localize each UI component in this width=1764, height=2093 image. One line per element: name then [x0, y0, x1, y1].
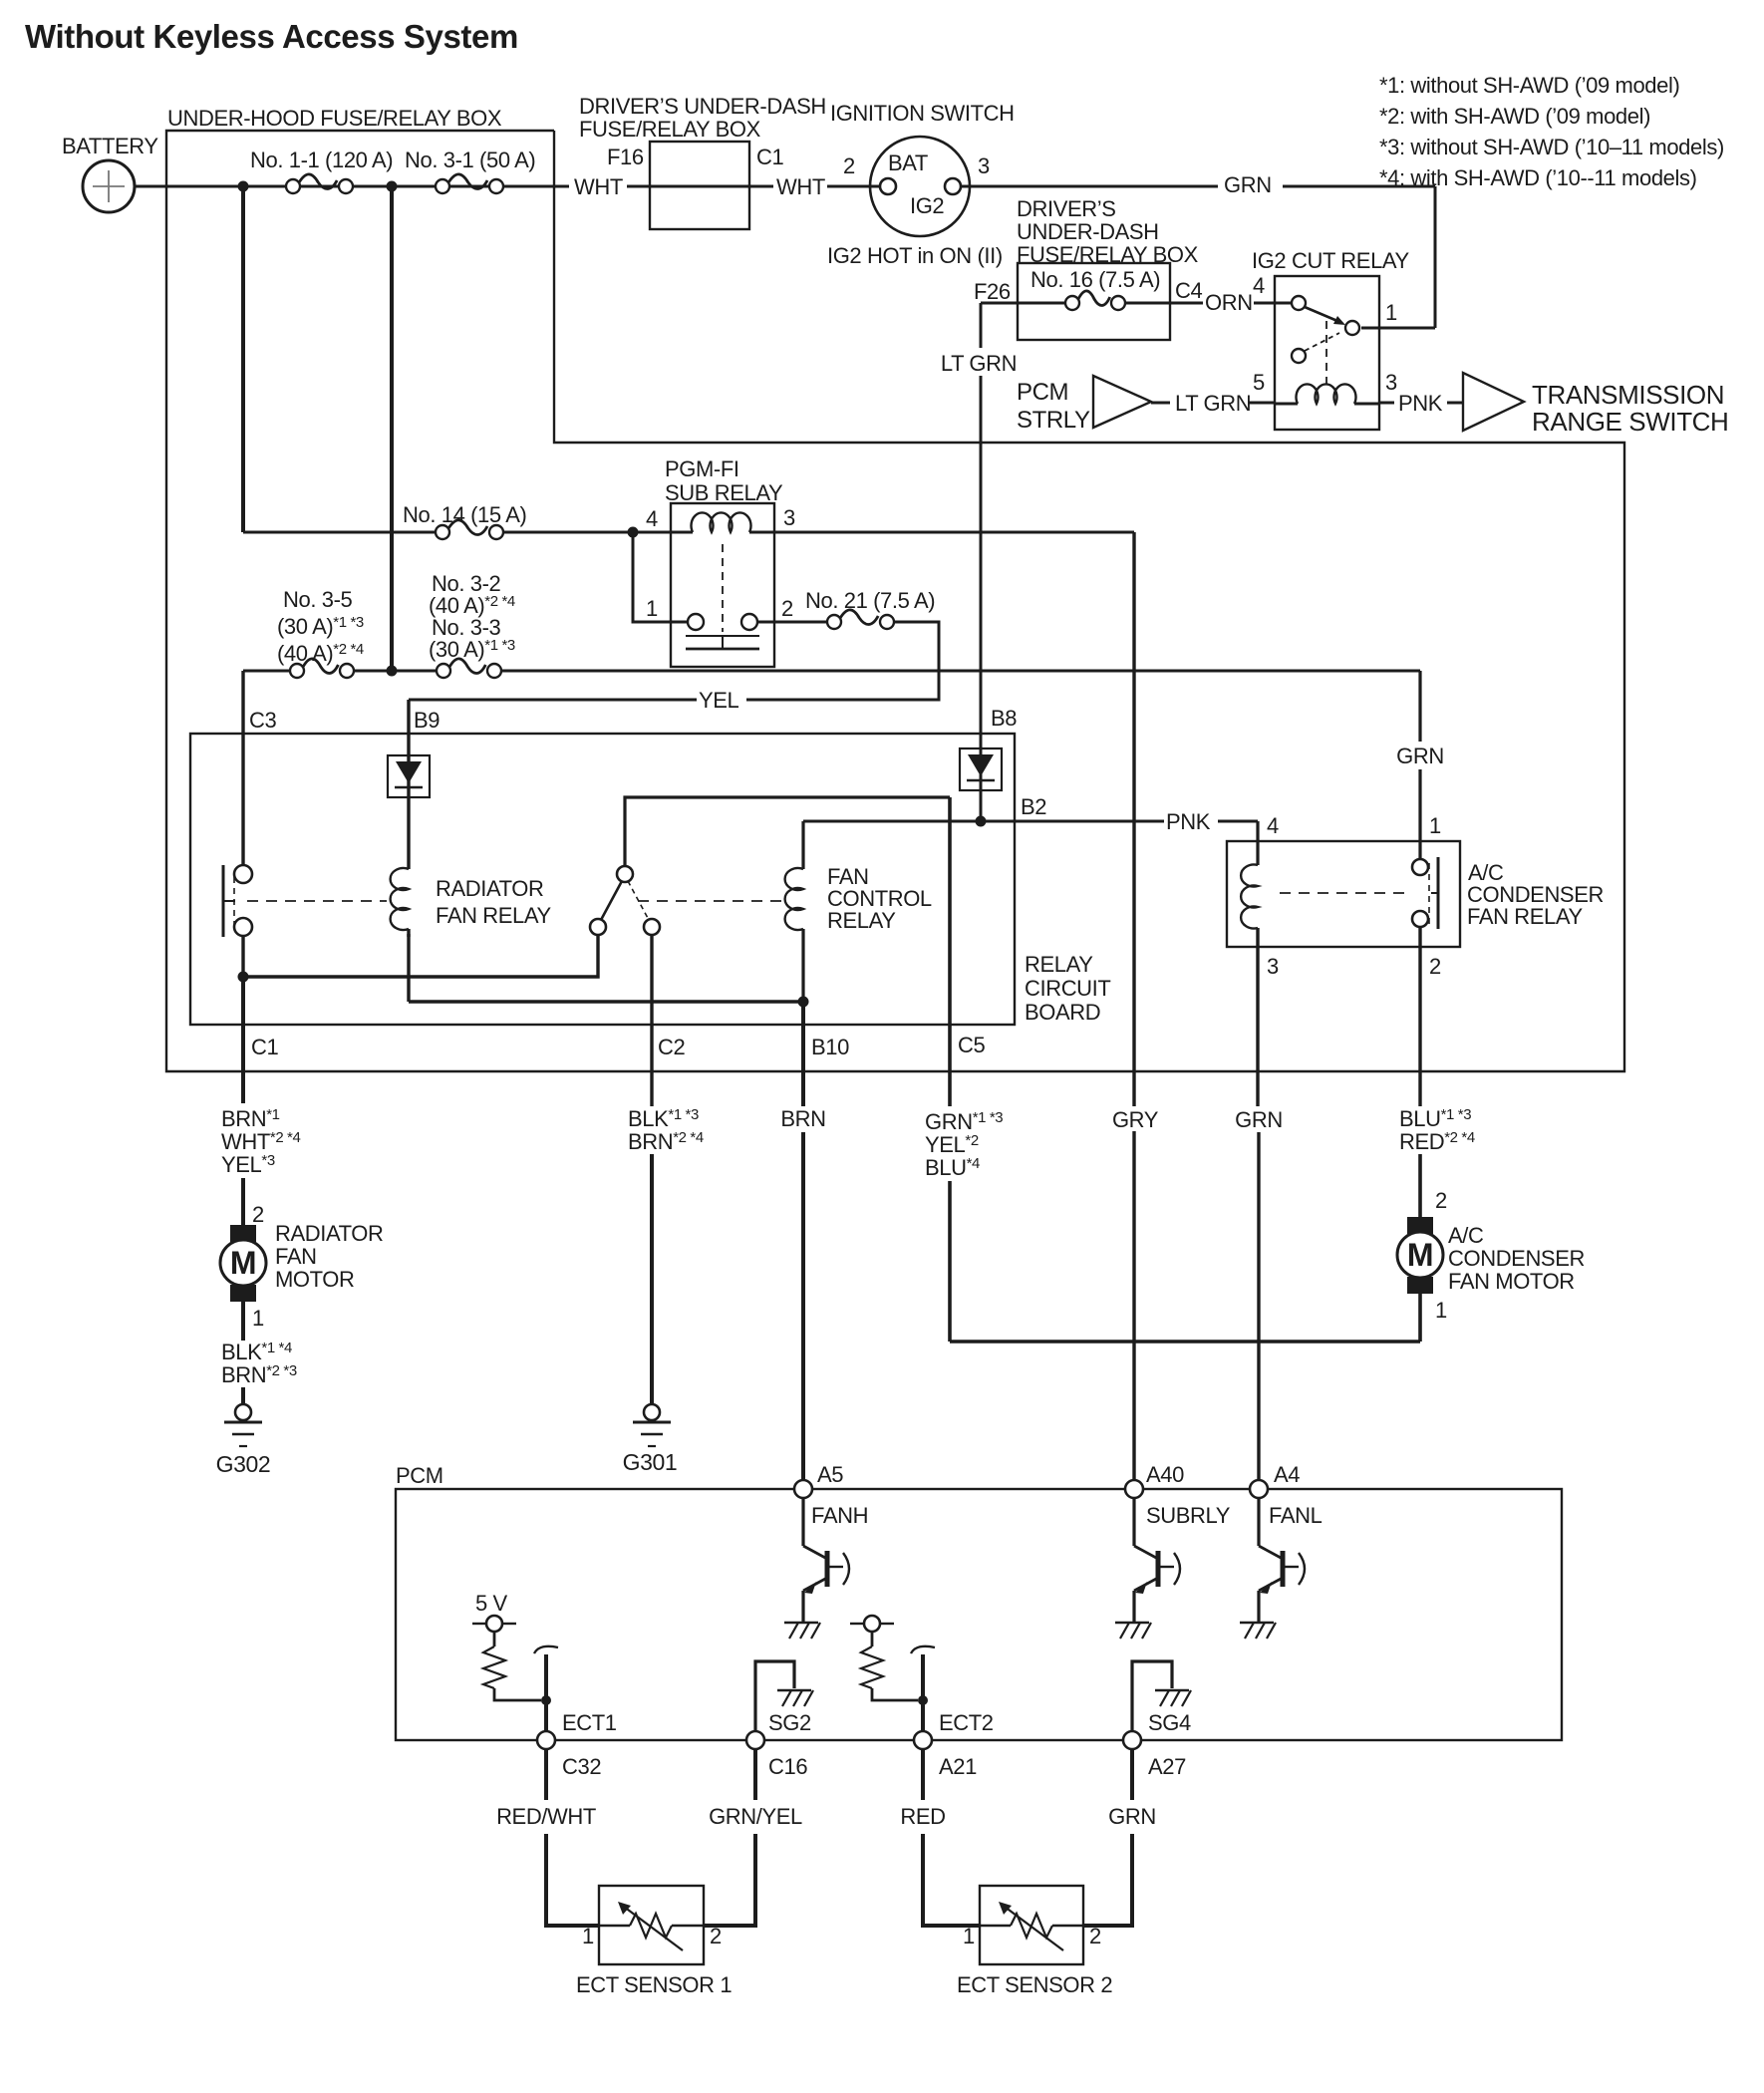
- svg-text:B9: B9: [414, 708, 440, 733]
- svg-text:LT GRN: LT GRN: [1175, 391, 1251, 416]
- radiator fan relay contact a: [234, 865, 252, 883]
- junction node sub relay pin1/pin4: [628, 527, 639, 538]
- PCM pin A40: [1125, 1480, 1143, 1498]
- svg-text:FANH: FANH: [811, 1503, 868, 1528]
- wire C32 to ECT sensor 1 (RED/WHT): [544, 1749, 548, 1800]
- svg-text:RED/WHT: RED/WHT: [496, 1804, 596, 1829]
- svg-text:C1: C1: [251, 1035, 278, 1059]
- svg-text:5 V: 5 V: [475, 1591, 508, 1616]
- sub relay contact 2: [741, 614, 757, 630]
- svg-text:WHT: WHT: [574, 174, 623, 199]
- svg-text:C16: C16: [768, 1754, 807, 1779]
- svg-text:No. 1-1 (120 A): No. 1-1 (120 A): [250, 148, 393, 172]
- svg-text:M: M: [1407, 1237, 1433, 1273]
- svg-text:IGNITION SWITCH: IGNITION SWITCH: [830, 101, 1015, 126]
- svg-text:A4: A4: [1274, 1462, 1300, 1487]
- driver's under-dash fuse/relay box F16: [650, 142, 749, 229]
- fuse No. 21 (7.5 A): [827, 615, 841, 629]
- svg-text:F16: F16: [607, 145, 644, 169]
- ECT sensor 2: [980, 1886, 1083, 1964]
- junction node B10: [798, 997, 809, 1008]
- svg-text:FAN: FAN: [275, 1244, 317, 1269]
- svg-text:PCM: PCM: [396, 1463, 443, 1488]
- svg-text:CONDENSER: CONDENSER: [1448, 1246, 1585, 1271]
- bus wire C1: [243, 935, 598, 977]
- SG2 internal ground: [755, 1661, 794, 1731]
- junction node No.1-1/No.3-1: [387, 181, 398, 192]
- A/C condenser fan motor: [1407, 1217, 1433, 1234]
- wire ECT2: [911, 1646, 935, 1653]
- wire B10 to PCM A5 (BRN): [801, 1002, 805, 1106]
- fan control relay switch common: [617, 866, 633, 882]
- svg-text:ECT1: ECT1: [562, 1710, 617, 1735]
- svg-text:GRY: GRY: [1112, 1107, 1159, 1132]
- fuse No. 16 (7.5 A): [1018, 302, 1064, 305]
- IG2 cut relay armature: [1305, 307, 1337, 321]
- junction node battery/No.1-1: [238, 181, 249, 192]
- wire C3 column: [241, 671, 244, 865]
- radiator fan relay contact plate: [222, 865, 225, 937]
- svg-text:A5: A5: [817, 1462, 843, 1487]
- wire sub relay pin 3 to GRY column: [774, 531, 1134, 534]
- svg-text:FANL: FANL: [1269, 1503, 1323, 1528]
- svg-text:B10: B10: [811, 1035, 849, 1059]
- fuse No. 1-1 (120 A): [286, 179, 300, 193]
- svg-text:G302: G302: [216, 1451, 271, 1477]
- A/C relay contact 2: [1412, 911, 1428, 927]
- ground G302: [235, 1404, 251, 1420]
- svg-text:SG4: SG4: [1148, 1710, 1191, 1735]
- svg-text:1: 1: [963, 1924, 975, 1948]
- svg-text:SUBRLY: SUBRLY: [1146, 1503, 1231, 1528]
- bus wire coil bottoms to B10: [409, 1000, 803, 1003]
- junction node C1: [238, 972, 249, 983]
- svg-text:TRANSMISSION: TRANSMISSION: [1532, 380, 1724, 410]
- junction node No.3-5 row: [387, 666, 398, 677]
- svg-text:3: 3: [783, 505, 795, 530]
- svg-text:G301: G301: [623, 1449, 678, 1475]
- svg-text:FAN RELAY: FAN RELAY: [1467, 904, 1584, 929]
- svg-text:IG2 HOT in ON (II): IG2 HOT in ON (II): [827, 243, 1003, 268]
- svg-text:ORN: ORN: [1205, 290, 1253, 315]
- fuse No. 3-1 (50 A): [436, 179, 449, 193]
- diode B9: [388, 755, 430, 797]
- IG2 cut relay contact 1: [1345, 321, 1359, 335]
- svg-text:UNDER-HOOD FUSE/RELAY BOX: UNDER-HOOD FUSE/RELAY BOX: [167, 106, 502, 131]
- svg-text:1: 1: [646, 596, 658, 621]
- svg-text:GRN: GRN: [1108, 1804, 1156, 1829]
- wire battery junction down to No.14 fuse row: [241, 186, 245, 532]
- svg-text:PNK: PNK: [1398, 391, 1443, 416]
- A/C relay contact 1: [1412, 859, 1428, 875]
- svg-text:UNDER-DASH: UNDER-DASH: [1017, 219, 1159, 244]
- wire battery to F16 box (WHT): [135, 185, 569, 188]
- svg-text:YEL: YEL: [699, 688, 739, 713]
- svg-text:RADIATOR: RADIATOR: [275, 1221, 383, 1246]
- svg-text:2: 2: [1429, 954, 1441, 979]
- svg-text:FUSE/RELAY BOX: FUSE/RELAY BOX: [1017, 242, 1199, 267]
- svg-text:ECT2: ECT2: [939, 1710, 994, 1735]
- svg-text:GRN: GRN: [1235, 1107, 1283, 1132]
- svg-text:C2: C2: [658, 1035, 685, 1059]
- wire sub relay pin 2 to fuse No.21: [757, 621, 827, 624]
- svg-text:CIRCUIT: CIRCUIT: [1025, 976, 1110, 1001]
- PCM pin A4: [1250, 1480, 1268, 1498]
- wire C2 column: [650, 935, 653, 1106]
- wire ORN: [1170, 302, 1203, 305]
- sub relay contact 1: [688, 614, 704, 630]
- wire GRN ignition to IG2 cut relay pin 1: [961, 185, 1218, 188]
- svg-text:RANGE SWITCH: RANGE SWITCH: [1532, 407, 1728, 437]
- PCM pin C32 (ECT1): [537, 1731, 555, 1749]
- svg-text:C4: C4: [1175, 278, 1202, 303]
- svg-text:C3: C3: [249, 708, 276, 733]
- wire YEL to diode B9: [409, 699, 697, 702]
- fan control relay switch contact high: [644, 919, 660, 935]
- wire ECT1: [534, 1646, 558, 1653]
- radiator fan motor: [230, 1225, 256, 1242]
- svg-text:1: 1: [1385, 300, 1397, 325]
- wire A/C relay pin 2 down: [1418, 927, 1421, 1106]
- svg-text:3: 3: [978, 153, 990, 178]
- svg-text:BAT: BAT: [888, 150, 928, 175]
- driver's under-dash fuse/relay box No.16: [1018, 263, 1170, 340]
- PGM-FI sub relay box: [671, 503, 774, 667]
- PCM pin A27 (SG4): [1123, 1731, 1141, 1749]
- svg-text:4: 4: [646, 506, 658, 531]
- radiator fan relay contact b: [234, 918, 252, 936]
- svg-text:No. 14 (15 A): No. 14 (15 A): [403, 502, 526, 527]
- svg-text:LT GRN: LT GRN: [941, 351, 1017, 376]
- radiator fan relay coil: [407, 865, 410, 869]
- PCM box: [396, 1489, 1562, 1740]
- svg-text:BOARD: BOARD: [1025, 1000, 1100, 1025]
- svg-text:A40: A40: [1146, 1462, 1184, 1487]
- wire C1 to radiator fan motor: [241, 977, 245, 1103]
- junction node B2: [976, 816, 987, 827]
- svg-text:PGM-FI: PGM-FI: [665, 456, 739, 481]
- svg-text:*3: without SH-AWD (’10–11 mod: *3: without SH-AWD (’10–11 models): [1379, 135, 1724, 159]
- ground G301: [644, 1404, 660, 1420]
- PCM STRLY connector triangle: [1093, 376, 1151, 428]
- SG4 internal ground: [1132, 1661, 1172, 1731]
- svg-text:*2: with SH-AWD (’09 model): *2: with SH-AWD (’09 model): [1379, 104, 1650, 129]
- A/C relay contact plate: [1437, 857, 1440, 929]
- A/C condenser fan relay box: [1227, 841, 1460, 947]
- diode B8: [960, 748, 1002, 790]
- svg-text:*1: without SH-AWD (’09 model): *1: without SH-AWD (’09 model): [1379, 73, 1679, 98]
- svg-text:2: 2: [781, 596, 793, 621]
- svg-text:No. 16 (7.5 A): No. 16 (7.5 A): [1030, 267, 1160, 292]
- svg-text:BRN: BRN: [780, 1106, 825, 1131]
- wire fuse No.21 to YEL: [746, 622, 939, 700]
- svg-text:DRIVER’S: DRIVER’S: [1017, 196, 1116, 221]
- svg-text:2: 2: [1089, 1924, 1101, 1948]
- svg-text:3: 3: [1385, 370, 1397, 395]
- svg-text:PCM: PCM: [1017, 379, 1068, 406]
- svg-text:5: 5: [1253, 370, 1265, 395]
- svg-text:ECT SENSOR 2: ECT SENSOR 2: [957, 1972, 1112, 1997]
- svg-text:4: 4: [1267, 813, 1279, 838]
- svg-text:No. 3-1 (50 A): No. 3-1 (50 A): [405, 148, 535, 172]
- svg-text:SG2: SG2: [768, 1710, 811, 1735]
- battery: [83, 160, 135, 212]
- PCM pin A21 (ECT2): [914, 1731, 932, 1749]
- sub relay pin1 wire: [633, 532, 688, 622]
- wire radiator relay coil to bus: [407, 934, 410, 1002]
- A/C relay coil: [1256, 821, 1259, 865]
- svg-text:B8: B8: [991, 706, 1017, 731]
- PCM pin A5: [794, 1480, 812, 1498]
- svg-text:1: 1: [252, 1306, 264, 1331]
- svg-text:B2: B2: [1021, 794, 1046, 819]
- svg-text:STRLY: STRLY: [1017, 407, 1090, 434]
- svg-text:FUSE/RELAY BOX: FUSE/RELAY BOX: [579, 117, 761, 142]
- fuse No. 14 (15 A): [436, 525, 449, 539]
- svg-text:ECT SENSOR 1: ECT SENSOR 1: [576, 1972, 732, 1997]
- IG2 cut relay link dashed: [1325, 321, 1327, 389]
- svg-text:Without Keyless Access System: Without Keyless Access System: [25, 18, 518, 55]
- wire B2 row (PNK): [803, 820, 977, 823]
- junction node ECT2 pullup: [918, 1695, 928, 1705]
- svg-text:2: 2: [1435, 1188, 1447, 1213]
- svg-text:A27: A27: [1148, 1754, 1186, 1779]
- ignition switch: [870, 137, 970, 236]
- svg-text:No. 21 (7.5 A): No. 21 (7.5 A): [805, 588, 935, 613]
- wire switch common up and over to C5: [625, 797, 950, 866]
- svg-text:RELAY: RELAY: [1025, 952, 1093, 977]
- transistor SUBRLY: [1132, 1498, 1135, 1546]
- svg-text:C1: C1: [756, 145, 783, 169]
- IG2 cut relay: [1275, 276, 1379, 430]
- fan control relay switch contact low: [590, 919, 606, 935]
- svg-text:GRN: GRN: [1396, 744, 1444, 768]
- PCM pin C16 (SG2): [746, 1731, 764, 1749]
- svg-text:1: 1: [1429, 813, 1441, 838]
- wire A21 to ECT sensor 2 (RED): [921, 1749, 925, 1800]
- svg-text:GRN/YEL: GRN/YEL: [709, 1804, 802, 1829]
- junction node ECT1 pullup: [541, 1695, 551, 1705]
- svg-text:3: 3: [1267, 954, 1279, 979]
- sub relay link dashed: [722, 544, 724, 632]
- svg-text:No. 3-5: No. 3-5: [283, 587, 353, 612]
- svg-text:C5: C5: [958, 1033, 985, 1057]
- svg-text:A/C: A/C: [1448, 1223, 1484, 1248]
- svg-text:FAN MOTOR: FAN MOTOR: [1448, 1269, 1575, 1294]
- svg-text:GRN: GRN: [1224, 172, 1272, 197]
- 5V reference 2: [864, 1616, 880, 1632]
- svg-text:1: 1: [1435, 1298, 1447, 1323]
- fan control relay coil: [801, 821, 804, 869]
- sub relay coil: [671, 531, 693, 534]
- IG2 cut relay contact 4: [1292, 296, 1306, 310]
- svg-text:M: M: [230, 1245, 256, 1281]
- svg-text:A21: A21: [939, 1754, 977, 1779]
- svg-text:DRIVER’S UNDER-DASH: DRIVER’S UNDER-DASH: [579, 94, 826, 119]
- transistor FANL: [1257, 1498, 1260, 1546]
- wire motor to G302: [241, 1302, 245, 1341]
- wire PNK to transmission range switch: [1379, 402, 1394, 405]
- IG2 cut relay coil: [1275, 403, 1298, 406]
- svg-text:RADIATOR: RADIATOR: [436, 876, 543, 901]
- svg-text:FAN RELAY: FAN RELAY: [436, 903, 552, 928]
- fuse No. 3-5: [243, 670, 290, 673]
- svg-text:1: 1: [582, 1924, 594, 1948]
- svg-text:IG2 CUT RELAY: IG2 CUT RELAY: [1252, 248, 1410, 273]
- svg-text:C32: C32: [562, 1754, 601, 1779]
- wire No.14 to sub relay pin 4: [504, 531, 688, 534]
- ECT sensor 1: [599, 1886, 704, 1964]
- fuse No. 3-3: [437, 664, 450, 678]
- svg-text:F26: F26: [974, 279, 1011, 304]
- under-hood fuse/relay box outline: [166, 131, 1624, 1071]
- transistor FANH: [801, 1498, 804, 1546]
- svg-text:BATTERY: BATTERY: [62, 134, 158, 158]
- svg-text:2: 2: [252, 1202, 264, 1227]
- relay circuit board box: [190, 734, 1015, 1025]
- wire battery junction down to No.3-5 fuse row: [390, 186, 394, 671]
- transmission range switch connector triangle: [1463, 373, 1524, 431]
- svg-text:PNK: PNK: [1166, 809, 1211, 834]
- svg-text:RELAY: RELAY: [827, 908, 896, 933]
- wire No.3-3 to A/C condenser fan relay pin 1 (GRN): [501, 670, 1420, 673]
- svg-text:IG2: IG2: [910, 193, 944, 218]
- svg-text:2: 2: [843, 153, 855, 178]
- IG2 cut relay released contact: [1292, 349, 1306, 363]
- svg-text:WHT: WHT: [776, 174, 825, 199]
- svg-text:2: 2: [710, 1924, 722, 1948]
- wire LT GRN from F26 down to B8: [981, 302, 1018, 305]
- svg-text:SUB RELAY: SUB RELAY: [665, 480, 783, 505]
- svg-text:MOTOR: MOTOR: [275, 1267, 354, 1292]
- svg-text:4: 4: [1253, 273, 1265, 298]
- sub relay bridge contact: [686, 635, 759, 637]
- fan control relay switch arm: [601, 881, 622, 920]
- svg-text:RED: RED: [900, 1804, 945, 1829]
- wire LT GRN to pin 5: [1151, 402, 1170, 405]
